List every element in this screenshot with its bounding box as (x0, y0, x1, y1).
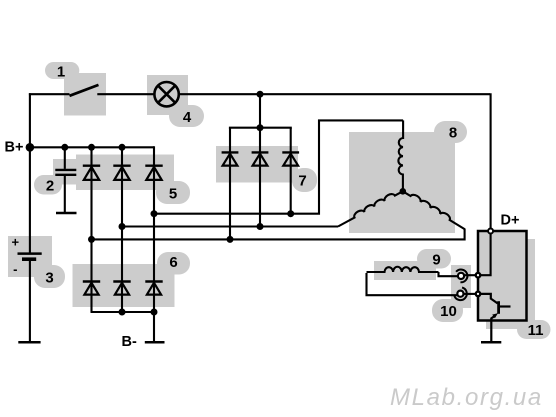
svg-text:1: 1 (57, 63, 65, 80)
stator winding 8 right coil (403, 191, 465, 229)
stator winding 8 top coil (398, 120, 403, 191)
auxiliary diode column 2 (259, 128, 261, 227)
svg-text:9: 9 (432, 251, 440, 268)
wire B+ rail (30, 146, 154, 148)
svg-text:-: - (13, 262, 17, 277)
capacitor C2 plates (55, 169, 76, 171)
diode VD7-2 (252, 152, 269, 165)
svg-text:10: 10 (440, 303, 457, 320)
highlight box for diode group 6 (73, 264, 175, 307)
diode VD7-3 (282, 152, 299, 165)
svg-text:6: 6 (169, 254, 177, 271)
label blob 4 (169, 105, 204, 127)
junction phase A at aux diode 3 (287, 210, 294, 217)
wire B- rail (91, 311, 155, 313)
junction phase C at aux diode 1 (227, 236, 234, 243)
diode VD6-2 (113, 282, 130, 295)
label blob 6 (157, 252, 190, 275)
label blob 11 (517, 320, 551, 339)
node B+ (26, 143, 35, 152)
capacitor C2 top lead (64, 147, 66, 169)
svg-text:4: 4 (183, 109, 192, 126)
node regulator upper pin (476, 273, 481, 278)
highlight box for switch 1 (64, 73, 106, 116)
svg-text:B-: B- (122, 334, 137, 350)
node D+ terminal (488, 229, 493, 234)
brush 10 upper slip ring (458, 273, 464, 279)
highlight box for lamp 4 (147, 75, 188, 115)
highlight box for diode group 5 (76, 155, 174, 191)
wire lower brush to regulator (464, 293, 479, 295)
diode VD6-3 (145, 282, 162, 295)
wire phase A to stator top (154, 120, 403, 213)
B- terminal bar (145, 341, 165, 344)
svg-text:3: 3 (45, 269, 53, 286)
wire phase B to stator left (122, 225, 338, 227)
highlight box for rotor winding 9 (374, 261, 436, 280)
junction top rail to diode bus (257, 91, 264, 98)
diode VD5-3 (145, 166, 162, 180)
junction B- rail column V (119, 309, 126, 316)
junction phase C at column U (88, 236, 95, 243)
junction on diode bus (257, 124, 264, 131)
diode VD5-1 (83, 166, 100, 180)
svg-text:11: 11 (528, 322, 544, 339)
rotor wire to upper brush (439, 272, 458, 276)
wire left vertical B+ riser (29, 93, 31, 253)
highlight box for stator 8 (349, 132, 455, 233)
svg-text:2: 2 (46, 177, 54, 194)
svg-text:5: 5 (169, 185, 177, 202)
junction phase B at aux diode 2 (257, 223, 264, 230)
label blob 9 (417, 249, 451, 269)
label blob 5 (156, 181, 190, 204)
diode VD6-1 (83, 282, 100, 295)
switch S1 blade (70, 85, 99, 96)
highlight box for capacitor 2 (53, 159, 78, 185)
capacitor C2 bottom lead (64, 176, 66, 213)
label blob 10 (432, 299, 463, 322)
junction B- rail column W (151, 309, 158, 316)
auxiliary diode column 3 (290, 128, 292, 214)
transistor Q collector lead (500, 305, 511, 307)
transistor Q emitter to ground (490, 318, 492, 343)
wire right vertical to regulator (490, 93, 492, 228)
regulator backdrop shadow (486, 239, 535, 329)
rotor loop left and bottom wires (367, 273, 458, 295)
label blob 2 (34, 175, 62, 195)
diode VD5-2 (113, 166, 130, 180)
battery G3 bottom lead (29, 261, 31, 342)
regulator internal wire from D+ node (480, 233, 491, 276)
rectifier column phase U (90, 147, 92, 312)
diode bus for group 7 (259, 94, 261, 128)
wire top rail middle segment (97, 93, 154, 95)
label blob 8 (434, 121, 467, 143)
rectifier column phase W (153, 146, 155, 342)
brush 10 lower arc (454, 288, 466, 301)
transistor Q bar (497, 301, 500, 314)
wire phase C to stator right (92, 229, 465, 240)
wire top rail left segment (29, 93, 70, 95)
wire upper brush to regulator (464, 274, 478, 276)
lamp HL4 (154, 82, 178, 106)
junction phase B at column V (119, 223, 126, 230)
brush 10 lower slip ring (457, 291, 463, 297)
label blob 1 (45, 62, 79, 79)
highlight strip for brushes 10 (451, 265, 471, 308)
svg-text:D+: D+ (501, 213, 520, 229)
regulator U11 box (478, 231, 527, 321)
transistor Q base wire (480, 294, 498, 304)
rectifier column phase V (121, 147, 123, 312)
svg-text:+: + (12, 235, 20, 250)
wire top rail right segment (179, 93, 490, 95)
auxiliary diode column 1 (229, 128, 231, 240)
stator star point node (400, 188, 407, 195)
transistor Q emitter lead with arrow (491, 316, 494, 318)
svg-text:B+: B+ (5, 140, 24, 156)
label blob 3 (34, 265, 65, 288)
junction column V on B+ rail (119, 144, 126, 151)
highlight box for battery 3 (8, 236, 52, 277)
svg-text:MLab.org.ua: MLab.org.ua (390, 384, 543, 411)
junction capacitor on B+ rail (61, 144, 68, 151)
svg-text:8: 8 (449, 124, 457, 141)
stator winding 8 left coil (338, 191, 403, 226)
regulator ground bar (481, 341, 501, 344)
junction column U on B+ rail (88, 144, 95, 151)
capacitor C2 terminal bar (56, 212, 77, 215)
brush 10 upper arc (456, 270, 467, 283)
svg-text:7: 7 (298, 172, 306, 189)
label blob 7 (292, 168, 317, 192)
junction phase A at column W (151, 210, 158, 217)
battery G3 plates (18, 252, 42, 255)
battery G3 terminal bar (18, 341, 40, 344)
node regulator lower pin (476, 292, 481, 297)
highlight box for diode group 7 (216, 146, 298, 183)
diode VD7-1 (222, 152, 239, 165)
rotor winding 9 coil (367, 267, 439, 272)
